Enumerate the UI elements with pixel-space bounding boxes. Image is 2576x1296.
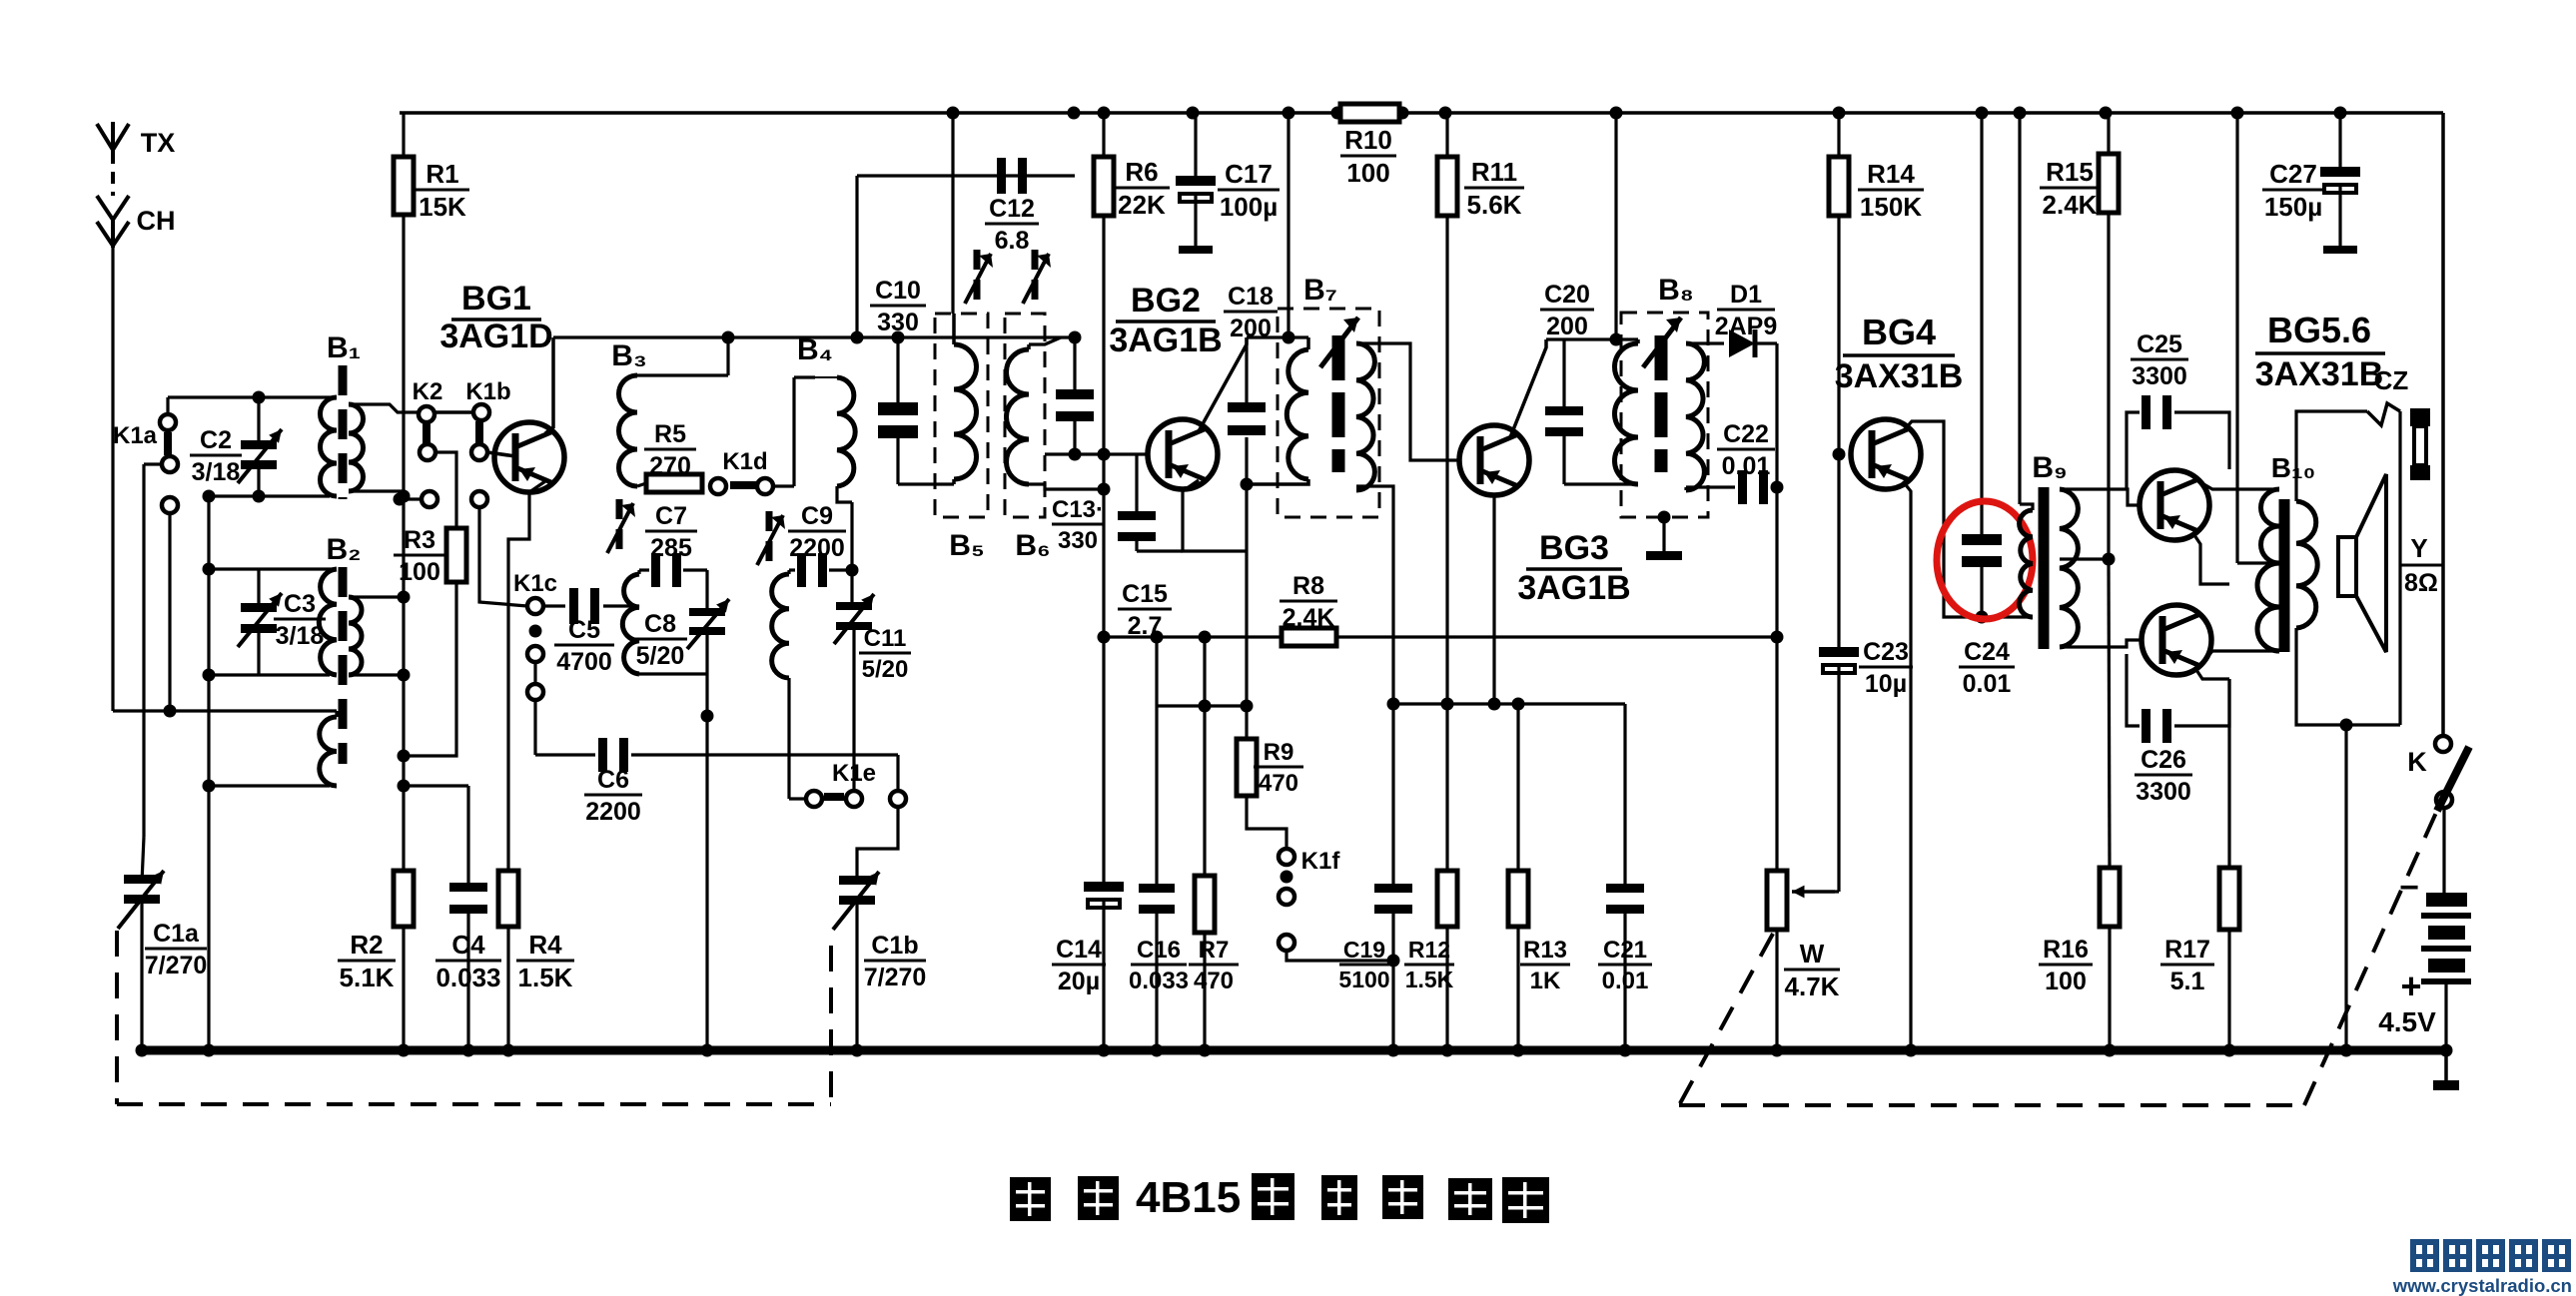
svg-text:330: 330	[877, 309, 919, 336]
svg-text:B₅: B₅	[949, 529, 984, 562]
wire detector to volume pot	[1775, 487, 1778, 871]
svg-text:C15: C15	[1122, 580, 1168, 608]
transformer B7 primary winding	[1306, 337, 1310, 349]
wire detector bias bus	[1393, 702, 1625, 705]
wire right edge vertical	[2441, 113, 2445, 737]
svg-text:C5: C5	[568, 616, 600, 644]
wire BG4 emitter	[1903, 481, 1911, 1050]
wire B10 secondary top to jack	[2296, 411, 2367, 501]
trimmer glyph B6	[1032, 250, 1039, 270]
wire B2 secondary leads	[349, 595, 404, 598]
switch K	[2435, 736, 2451, 752]
transformer B9 core	[2039, 487, 2050, 649]
capacitor C22	[1684, 487, 1687, 490]
transformer B2 left winding	[319, 569, 337, 675]
svg-text:B₁: B₁	[327, 331, 361, 364]
svg-text:BG5.6: BG5.6	[2267, 310, 2371, 350]
transformer B10 primary winding	[2261, 489, 2280, 563]
svg-text:C13·: C13·	[1052, 496, 1104, 523]
resistor R15	[2099, 154, 2119, 213]
wire K2 low to bus	[400, 497, 422, 500]
wire R8 feedback line	[1104, 635, 1777, 638]
capacitor C17 (electrolytic)	[1194, 113, 1197, 176]
svg-text:BG3: BG3	[1539, 529, 1609, 567]
wire coupling winding bottom	[209, 784, 330, 787]
svg-text:K1a: K1a	[113, 422, 158, 449]
wire K1a to C2 tank top	[166, 397, 169, 414]
svg-text:3300: 3300	[2132, 362, 2187, 390]
wire B9 secondary top to BG5 base	[2060, 489, 2140, 505]
capacitor C16	[1139, 884, 1175, 893]
svg-text:R9: R9	[1264, 739, 1294, 766]
svg-text:C17: C17	[1225, 159, 1273, 189]
wire BG2 collector	[1199, 337, 1247, 431]
wire B9 secondary tap	[2060, 557, 2109, 560]
svg-text:R8: R8	[1292, 572, 1324, 600]
svg-text:W: W	[1800, 939, 1825, 969]
resistor R17	[2227, 679, 2230, 868]
capacitor C13	[1073, 337, 1076, 389]
svg-text:C1a: C1a	[153, 920, 200, 948]
resistor R14	[1837, 113, 1840, 157]
svg-text:B₂: B₂	[327, 533, 362, 566]
transformer B9 secondary winding	[2060, 489, 2078, 647]
wire BG3 emitter	[1492, 494, 1495, 704]
svg-text:100: 100	[2045, 968, 2087, 995]
diode D1 2AP9	[1686, 341, 1724, 344]
svg-text:C23: C23	[1863, 638, 1909, 666]
wire bottom ground bus	[142, 1046, 2447, 1055]
svg-text:7/270: 7/270	[145, 952, 208, 979]
svg-text:D1: D1	[1730, 281, 1762, 309]
switch K1f contacts	[1247, 796, 1287, 849]
resistor R8	[1282, 628, 1336, 646]
transistor BG6	[2142, 605, 2211, 675]
transformer B10 core	[2279, 499, 2290, 652]
capacitor C25	[2127, 412, 2140, 490]
svg-text:R13: R13	[1523, 937, 1567, 964]
wire BG2 base line	[1045, 452, 1147, 455]
capacitor C4	[404, 784, 468, 787]
svg-text:−: −	[2399, 869, 2419, 907]
wire gang dashed link W to K	[1679, 934, 1773, 1105]
wire C2 tank bottom	[209, 494, 330, 497]
svg-text:2AP9: 2AP9	[1715, 313, 1778, 340]
switch K1e contacts	[806, 791, 822, 807]
wire B8 feed from rail	[1614, 113, 1617, 339]
transformer B7 shield box	[1278, 309, 1379, 517]
svg-text:2200: 2200	[789, 534, 845, 562]
wire C18 node from BG2 collector	[1247, 335, 1308, 338]
oscillator coil winding (tank 1)	[622, 574, 639, 674]
capacitor C24	[1980, 113, 1983, 534]
svg-text:B₄: B₄	[797, 333, 833, 366]
resistor R6	[1094, 157, 1114, 216]
transformer B6 shield box	[1005, 314, 1045, 517]
svg-text:K1e: K1e	[832, 760, 876, 787]
svg-text:22K: 22K	[1118, 190, 1166, 220]
capacitor C26	[2127, 654, 2140, 726]
wire BG4 collector	[1903, 421, 2033, 617]
svg-text:0.033: 0.033	[1129, 968, 1189, 994]
transformer B4 winding	[773, 484, 794, 487]
wire R3 bottom	[404, 582, 456, 756]
svg-text:10µ: 10µ	[1865, 670, 1907, 698]
oscillator coil winding (tank 2)	[772, 574, 789, 678]
wire R1 down to B1/K2 node	[402, 215, 405, 1050]
transformer B5 shield box	[935, 314, 988, 517]
transformer B9 primary winding	[2020, 504, 2033, 510]
capacitor C10	[896, 337, 899, 402]
switch K1d contacts	[710, 478, 726, 494]
svg-text:0.01: 0.01	[1963, 670, 2012, 698]
svg-text:C25: C25	[2137, 330, 2182, 358]
svg-text:3/18: 3/18	[276, 622, 325, 650]
transformer B8 core	[1655, 335, 1668, 472]
transistor BG2	[1148, 419, 1218, 489]
svg-text:BG1: BG1	[461, 280, 531, 318]
svg-text:TX: TX	[141, 128, 176, 158]
wire BG1 base lead	[487, 452, 515, 456]
transformer B8 primary winding	[1636, 339, 1640, 343]
resistor R7	[1195, 876, 1215, 933]
trimmer glyph near C7	[616, 499, 623, 519]
capacitor C8 (trimmer)	[705, 570, 708, 608]
svg-text:100: 100	[399, 558, 440, 586]
svg-text:K1c: K1c	[513, 570, 557, 597]
transformer B6 winding	[1027, 344, 1031, 349]
wire BG2 emitter	[1183, 480, 1247, 551]
svg-text:5/20: 5/20	[636, 642, 685, 670]
transformer B1 right winding	[349, 404, 364, 491]
resistor R12	[1437, 871, 1457, 927]
svg-text:3AX31B: 3AX31B	[1835, 357, 1964, 395]
svg-text:3AG1B: 3AG1B	[1109, 322, 1222, 359]
svg-text:7/270: 7/270	[864, 964, 927, 991]
svg-text:285: 285	[650, 534, 692, 562]
capacitor C23 (electrolytic)	[1819, 647, 1859, 657]
resistor R10	[1340, 104, 1399, 122]
caption blocks (Chinese title)	[1010, 1177, 1051, 1221]
wire B1 secondary bottom	[349, 491, 404, 496]
trimmer arrow B8	[1643, 318, 1681, 367]
svg-text:C11: C11	[864, 625, 907, 652]
capacitor C9	[789, 568, 795, 571]
transformer B2 antenna coupling winding	[320, 717, 337, 786]
svg-text:BG2: BG2	[1131, 282, 1201, 320]
capacitor C11 (trimmer)	[850, 570, 853, 602]
capacitor C3 (trimmer)	[209, 567, 337, 570]
capacitor C6	[533, 700, 536, 755]
svg-text:R12: R12	[1408, 937, 1450, 963]
wire B7 secondary to BG3 base	[1356, 343, 1459, 460]
svg-text:C2: C2	[200, 426, 232, 454]
svg-text:C18: C18	[1228, 283, 1274, 311]
svg-text:R2: R2	[350, 930, 383, 960]
watermark logo blocks	[2410, 1239, 2439, 1272]
resistor R3	[446, 528, 466, 582]
svg-text:2.4K: 2.4K	[2043, 190, 2098, 220]
wire top supply rail	[400, 111, 2443, 115]
svg-text:CZ: CZ	[2374, 365, 2409, 395]
wire BG5 emitter	[2192, 532, 2229, 584]
transistor BG1	[494, 422, 564, 492]
svg-text:330: 330	[1058, 527, 1098, 554]
svg-text:R3: R3	[404, 526, 435, 554]
capacitor C14 (electrolytic)	[1102, 880, 1105, 883]
wire gang dashed link C1a	[115, 931, 119, 1104]
wire BG1 collector	[545, 337, 553, 433]
svg-text:K1b: K1b	[465, 378, 510, 405]
svg-text:C7: C7	[655, 502, 687, 530]
wire emitter bias bus	[1155, 637, 1158, 884]
red highlight ellipse around C24	[1937, 501, 2033, 619]
svg-text:B₆: B₆	[1015, 529, 1050, 562]
svg-text:C4: C4	[451, 930, 485, 960]
capacitor C12	[855, 176, 858, 337]
wire left tank bus	[207, 496, 210, 1050]
svg-text:C1b: C1b	[871, 932, 918, 960]
svg-text:3300: 3300	[2136, 778, 2191, 806]
chassis ground	[2444, 1050, 2448, 1080]
svg-text:470: 470	[1194, 968, 1234, 994]
capacitor C21	[1623, 704, 1626, 884]
svg-text:C8: C8	[644, 610, 676, 638]
switch K2 contacts	[419, 406, 434, 422]
wire B10 secondary bottom	[2296, 628, 2400, 725]
svg-text:5/20: 5/20	[862, 656, 909, 683]
svg-text:0.01: 0.01	[1602, 968, 1649, 994]
resistor R5	[646, 474, 702, 492]
wire K1e to C1b	[896, 755, 899, 791]
wire K2 mid to R3	[435, 452, 456, 528]
svg-text:C9: C9	[801, 502, 833, 530]
wire BG3 collector	[1510, 339, 1546, 437]
resistor R11	[1445, 113, 1448, 157]
svg-text:+: +	[2400, 966, 2421, 1006]
svg-text:R1: R1	[426, 159, 458, 189]
svg-text:C6: C6	[597, 766, 629, 794]
svg-text:R6: R6	[1125, 157, 1158, 187]
svg-text:2200: 2200	[585, 798, 641, 826]
wire collector bus	[553, 335, 1075, 338]
transformer B3 winding	[637, 373, 728, 376]
svg-text:3AG1D: 3AG1D	[439, 318, 552, 355]
resistor R1	[402, 113, 405, 157]
svg-text:R14: R14	[1867, 159, 1915, 189]
svg-text:R10: R10	[1344, 125, 1392, 155]
svg-text:R4: R4	[528, 930, 562, 960]
svg-text:C20: C20	[1544, 281, 1590, 309]
svg-text:K: K	[2407, 747, 2427, 777]
svg-text:K1d: K1d	[722, 448, 767, 475]
wire BG6 collector to B10	[2202, 651, 2279, 663]
wire K1f to C19 node	[1287, 951, 1393, 961]
transformer B7 core	[1332, 335, 1345, 472]
svg-text:470: 470	[1259, 770, 1298, 797]
svg-text:1.5K: 1.5K	[1405, 967, 1454, 992]
wire B6 top to C13 node	[1029, 337, 1061, 344]
svg-text:15K: 15K	[419, 192, 466, 222]
svg-text:1K: 1K	[1530, 968, 1561, 994]
wire BG3 collector bus	[1546, 337, 1638, 340]
svg-text:4700: 4700	[556, 648, 612, 676]
wire BG6 emitter to R17	[2194, 667, 2229, 679]
trimmer arrow B7	[1320, 318, 1358, 367]
transistor BG4	[1851, 419, 1921, 489]
svg-text:0.01: 0.01	[1722, 452, 1771, 480]
transformer B8 secondary winding	[1686, 343, 1704, 490]
wire K1a middle to C1a	[144, 462, 162, 465]
resistor R13	[1508, 871, 1528, 927]
svg-text:2.4K: 2.4K	[1283, 604, 1335, 632]
capacitor C20	[1562, 339, 1565, 406]
node junction dots on top rail	[947, 107, 960, 120]
resistor R16	[2100, 868, 2120, 927]
wire tank1 bottom	[639, 672, 707, 675]
variable capacitor C1b	[839, 876, 875, 885]
svg-text:C3: C3	[284, 590, 316, 618]
svg-text:1.5K: 1.5K	[518, 963, 573, 992]
wire antenna lead	[111, 246, 114, 711]
speaker Y	[2338, 537, 2356, 596]
wire B9 primary feed	[2018, 113, 2021, 504]
svg-text:4.5V: 4.5V	[2378, 1006, 2436, 1037]
svg-text:3AX31B: 3AX31B	[2255, 355, 2384, 393]
wire BG5 collector to B10	[2200, 482, 2279, 489]
variable capacitor C1a	[142, 837, 144, 883]
svg-text:R17: R17	[2164, 936, 2210, 964]
transformer B2 right winding	[349, 597, 362, 675]
svg-text:3AG1B: 3AG1B	[1517, 569, 1630, 607]
switch K1c contacts	[527, 598, 543, 614]
transformer B8 shield box	[1621, 313, 1708, 517]
svg-text:www.crystalradio.cn: www.crystalradio.cn	[2392, 1275, 2572, 1296]
svg-text:200: 200	[1546, 313, 1588, 340]
svg-text:5.6K: 5.6K	[1467, 190, 1522, 220]
switch K1a contacts	[160, 414, 176, 430]
svg-text:Y: Y	[2410, 533, 2427, 563]
transformer B1 core	[339, 365, 348, 499]
switch K1b contacts	[473, 404, 489, 420]
wire B9 secondary bottom to BG6 base	[2060, 640, 2142, 647]
svg-text:100: 100	[1346, 158, 1389, 188]
svg-text:8Ω: 8Ω	[2404, 569, 2438, 597]
trimmer glyph B5	[974, 250, 981, 270]
svg-text:C24: C24	[1964, 638, 2010, 666]
wire B6 bottom to base line	[1029, 484, 1104, 489]
wire B5 feed from rail	[951, 113, 954, 314]
svg-text:4B15: 4B15	[1136, 1173, 1241, 1222]
transistor BG5	[2140, 470, 2209, 540]
svg-text:20µ: 20µ	[1058, 968, 1100, 995]
resistor R2	[394, 871, 414, 927]
wire K1b low to K1c	[479, 507, 527, 606]
svg-text:C16: C16	[1137, 937, 1181, 964]
transformer B7 secondary winding	[1356, 343, 1374, 490]
svg-text:100µ: 100µ	[1220, 192, 1278, 222]
svg-text:200: 200	[1230, 315, 1272, 342]
svg-text:6.8: 6.8	[995, 227, 1030, 255]
svg-text:BG4: BG4	[1862, 312, 1936, 352]
svg-text:R5: R5	[654, 420, 686, 448]
svg-text:C10: C10	[875, 277, 921, 305]
transformer B5 winding	[952, 314, 956, 344]
capacitor C18	[1245, 337, 1248, 402]
svg-text:5100: 5100	[1338, 967, 1389, 992]
svg-text:R16: R16	[2043, 936, 2089, 964]
svg-text:3/18: 3/18	[192, 458, 241, 486]
svg-text:C22: C22	[1723, 420, 1769, 448]
svg-text:0.033: 0.033	[435, 963, 500, 992]
antenna CH arrows	[97, 196, 129, 220]
earphone jack CZ	[2410, 408, 2430, 426]
capacitor C7	[639, 568, 649, 571]
wire B7 feed from rail	[1287, 113, 1289, 337]
svg-text:C19: C19	[1343, 937, 1385, 963]
svg-text:5.1: 5.1	[2170, 968, 2205, 995]
transformer B10 secondary winding	[2296, 501, 2317, 628]
capacitor C5	[543, 604, 565, 607]
transformer B2 core	[339, 567, 348, 764]
svg-text:5.1K: 5.1K	[340, 963, 395, 992]
earphone jack CZ switch notch	[2367, 403, 2400, 425]
svg-text:C26: C26	[2141, 746, 2186, 774]
svg-text:R15: R15	[2046, 157, 2094, 187]
capacitor C27 (electrolytic)	[2338, 113, 2341, 167]
transistor BG3	[1459, 425, 1529, 495]
wire BG1 emitter to R4	[508, 481, 545, 871]
battery 4.5V	[2442, 808, 2445, 893]
svg-text:C14: C14	[1056, 936, 1102, 964]
wire B7 secondary bottom to bias node	[1356, 486, 1393, 704]
wire B1 secondary top to K2	[349, 404, 419, 412]
svg-text:B₉: B₉	[2032, 451, 2067, 484]
svg-text:C21: C21	[1603, 937, 1647, 964]
svg-text:R7: R7	[1199, 937, 1230, 964]
svg-text:B₁₀: B₁₀	[2271, 452, 2315, 483]
wire B10 primary tap feed	[2235, 113, 2238, 563]
svg-text:K1f: K1f	[1301, 848, 1341, 875]
svg-text:C27: C27	[2269, 159, 2317, 189]
wire K1a lower to antenna coupling	[168, 513, 171, 711]
wire speaker line	[2398, 411, 2401, 725]
svg-text:270: 270	[649, 452, 691, 480]
svg-text:150K: 150K	[1860, 192, 1922, 222]
svg-text:B₇: B₇	[1303, 274, 1337, 307]
svg-text:K2: K2	[413, 378, 443, 405]
potentiometer W	[1767, 871, 1787, 930]
capacitor C2 (trimmer)	[257, 397, 260, 440]
wire tank2 bottom	[787, 678, 790, 799]
svg-text:B₃: B₃	[611, 339, 647, 372]
transformer B1 left winding	[321, 397, 337, 496]
svg-text:B₈: B₈	[1658, 274, 1694, 307]
wire detector output node	[1775, 343, 1778, 487]
svg-text:4.7K: 4.7K	[1785, 972, 1840, 1001]
resistor R9	[1237, 739, 1257, 796]
svg-text:C12: C12	[989, 195, 1035, 223]
antenna TX	[97, 124, 129, 150]
resistor R4	[498, 871, 518, 927]
wire B4 bottom bus	[837, 486, 852, 502]
svg-text:150µ: 150µ	[2264, 192, 2322, 222]
trimmer glyph near C9	[766, 511, 773, 531]
svg-text:CH: CH	[137, 206, 176, 236]
svg-text:R11: R11	[1471, 157, 1517, 187]
capacitor C19	[1391, 704, 1394, 884]
capacitor C15	[1135, 454, 1138, 511]
